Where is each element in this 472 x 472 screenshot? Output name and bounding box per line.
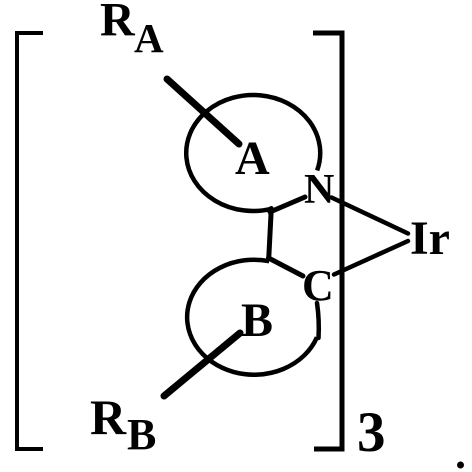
svg-text:R: R (100, 0, 136, 47)
bond R_A to ring A (167, 79, 239, 144)
svg-text:B: B (127, 410, 156, 459)
svg-text:N: N (304, 167, 334, 213)
svg-text:R: R (90, 389, 127, 445)
bond C to ring B (317, 303, 319, 338)
ring A circle (186, 95, 320, 211)
bond N to ring A vertex (270, 197, 305, 212)
bond N to Ir (332, 198, 409, 234)
bond R_B to ring B (164, 333, 240, 396)
svg-text:3: 3 (357, 401, 386, 464)
bond ring B vertex to C (269, 258, 304, 276)
inter-ring bond (269, 209, 272, 260)
svg-text:A: A (235, 132, 270, 185)
svg-text:B: B (241, 294, 273, 347)
bond C to Ir (334, 241, 408, 275)
svg-text:Ir: Ir (410, 212, 450, 265)
svg-text:A: A (134, 15, 164, 61)
right bracket (313, 33, 342, 449)
left bracket (17, 33, 43, 449)
ring B circle (187, 260, 317, 375)
period (457, 462, 464, 469)
